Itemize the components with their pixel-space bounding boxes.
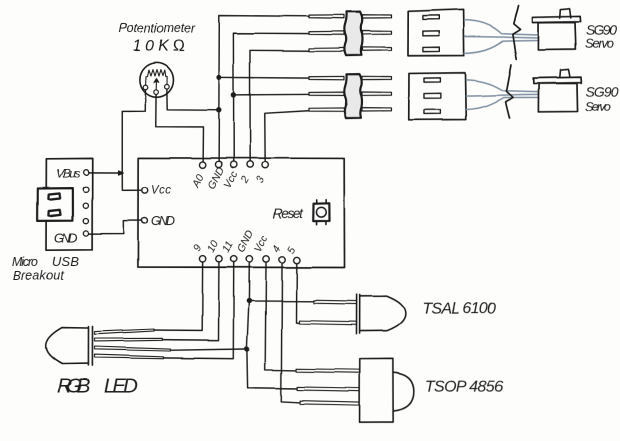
- board bottom pins: [199, 255, 300, 263]
- micro USB breakout body: [46, 158, 92, 250]
- svg-text:Servo: Servo: [585, 99, 611, 114]
- pin5 wire to TSAL bottom lead: [296, 263, 299, 323]
- svg-text:TSAL 6100: TSAL 6100: [422, 301, 496, 318]
- housing H2: [409, 73, 466, 120]
- TSOP4856 body: [360, 359, 414, 422]
- svg-text:9: 9: [191, 243, 204, 254]
- servo M1: [532, 9, 580, 50]
- USB connector symbol: [38, 188, 73, 221]
- MCU board U1: [138, 158, 345, 268]
- servo1 cable wires: [464, 20, 538, 53]
- GND bus wire (down): [247, 262, 297, 388]
- board top pin labels: [190, 165, 267, 192]
- wire VBus to board Vcc: [88, 172, 141, 190]
- svg-text:Potentiometer: Potentiometer: [119, 22, 196, 36]
- servo2 cable wires: [466, 80, 539, 109]
- cable break 2: [506, 64, 514, 118]
- Vcc wire to TSOP lead1: [265, 262, 296, 370]
- board top pins: [199, 161, 268, 168]
- svg-text:4: 4: [270, 244, 283, 255]
- RGB LED body: [46, 326, 93, 365]
- wire pot-right to GND riser: [167, 89, 219, 110]
- reset label: [273, 206, 304, 221]
- junction GND-RGB: [244, 347, 249, 352]
- TSAL6100 leads: [299, 300, 356, 325]
- svg-text:5: 5: [285, 245, 298, 256]
- svg-text:2: 2: [238, 175, 252, 187]
- branch GND to bundle2 pin1: [219, 76, 309, 79]
- potentiometer R1 body: [140, 63, 174, 97]
- breakout labels: [12, 167, 80, 283]
- svg-text:10KΩ: 10KΩ: [133, 38, 185, 55]
- pin10 wire to RGB lead2: [162, 262, 219, 340]
- servo M2: [533, 69, 581, 112]
- pin2 riser: [250, 50, 309, 161]
- housing H1: [408, 9, 464, 55]
- svg-text:Vcc: Vcc: [151, 185, 171, 197]
- GND branch to TSAL top lead: [249, 300, 314, 302]
- junction GND-TSAL: [246, 299, 251, 304]
- svg-text:Breakout: Breakout: [13, 269, 65, 283]
- header bundle J2 pins: [309, 76, 392, 111]
- svg-text:11: 11: [220, 239, 236, 254]
- TSAL6100 LED body: [356, 295, 405, 334]
- svg-text:GND: GND: [151, 214, 175, 228]
- pin9 wire to RGB lead1: [154, 262, 202, 330]
- svg-text:GND: GND: [54, 231, 78, 246]
- TSOP4856 label: [425, 379, 503, 396]
- wire breakout GND to board GND: [89, 221, 142, 234]
- svg-text:USB: USB: [52, 254, 79, 269]
- RGB LED label: [57, 375, 138, 398]
- junction dots on GND riser: [217, 75, 222, 80]
- cable break 1: [513, 6, 521, 59]
- Vcc riser (top): [233, 33, 309, 161]
- TSOP4856 leads: [296, 369, 360, 405]
- svg-text:LED: LED: [104, 375, 138, 398]
- pin4 wire to TSOP lead3: [281, 263, 300, 403]
- svg-text:TSOP 4856: TSOP 4856: [425, 379, 503, 396]
- board left pins: [141, 187, 147, 223]
- svg-text:10: 10: [205, 238, 221, 254]
- potentiometer label: [119, 22, 196, 56]
- header bundle J1 pins: [309, 15, 392, 52]
- svg-text:SG90: SG90: [585, 83, 618, 99]
- svg-text:Reset: Reset: [273, 206, 304, 221]
- junction VBus: [118, 170, 123, 174]
- TSAL6100 label: [422, 301, 496, 318]
- wire pot-left to VBus/Vcc: [122, 90, 145, 173]
- GND riser (top): [219, 16, 309, 162]
- pin3 riser: [265, 111, 309, 162]
- reset button SW1: [313, 200, 329, 225]
- board bottom pin labels: [191, 228, 298, 256]
- svg-text:RGB: RGB: [57, 375, 90, 398]
- svg-text:Micro: Micro: [12, 255, 38, 269]
- svg-text:3: 3: [253, 175, 266, 186]
- svg-text:Servo: Servo: [585, 36, 614, 51]
- wire pot-wiper to A0: [156, 95, 204, 162]
- svg-text:VBus: VBus: [56, 167, 80, 181]
- header bundle J1 body: [344, 12, 362, 56]
- RGB LED leads: [94, 329, 170, 359]
- branch Vcc to bundle2 pin2: [233, 93, 309, 96]
- GND branch to RGB lead3: [170, 349, 246, 350]
- header bundle J2 body: [344, 74, 362, 118]
- svg-text:A0: A0: [190, 172, 207, 190]
- pin11 wire to RGB lead4: [163, 262, 233, 359]
